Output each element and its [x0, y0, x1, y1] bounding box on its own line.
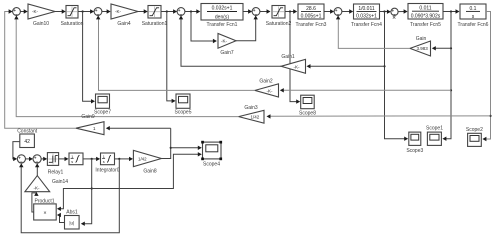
svg-text:Gain7: Gain7	[220, 50, 234, 56]
wire Integrator0 to Gain8, junction	[115, 157, 134, 161]
svg-text:Gain2: Gain2	[259, 79, 273, 85]
wire S3 to Transfer Fcn1, junction	[185, 9, 200, 13]
transfer fcn Transfer Fcn6	[458, 4, 489, 28]
wire junction down along bottom and up to sum SA	[19, 159, 119, 233]
sum S5	[334, 8, 342, 16]
wire Product1 output up to Gain14	[32, 192, 39, 212]
wire Gain2 output left and up to sum S2	[96, 15, 255, 90]
wire Gain8 output up to Gain9 with branch to Scope4 input 1	[161, 128, 171, 158]
wire Gain3 output left and up to sum S1	[14, 15, 238, 116]
svg-text:Gain3: Gain3	[244, 105, 258, 111]
relay Relay1	[47, 153, 63, 176]
svg-text:-K-: -K-	[115, 9, 122, 14]
wire feedback from Gain9 into sum S1	[5, 9, 76, 128]
wire S6 to Transfer Fcn5	[398, 9, 408, 13]
saturation Saturation	[61, 6, 84, 28]
gain Gain9 (mirrored, 1)	[76, 114, 104, 135]
svg-text:1/0.011: 1/0.011	[358, 6, 375, 12]
svg-text:0.011: 0.011	[419, 5, 431, 11]
svg-text:Scope3: Scope3	[406, 148, 423, 154]
svg-text:Constant: Constant	[17, 129, 38, 135]
gain Gain (3.983, mirrored)	[410, 36, 431, 56]
svg-text:Gain8: Gain8	[143, 168, 157, 174]
svg-text:Gain4: Gain4	[117, 21, 131, 27]
wire junction down to Gain7	[191, 12, 217, 44]
scope Scope7	[94, 94, 111, 116]
transfer fcn Transfer Fcn5	[408, 4, 443, 29]
svg-text:Transfer Fcn1: Transfer Fcn1	[207, 22, 238, 28]
svg-text:Gain: Gain	[416, 36, 427, 42]
svg-text:0.032s+1: 0.032s+1	[356, 14, 377, 20]
wire Transfer Fcn6 output down right edge to Scope2, junction	[482, 12, 491, 142]
svg-text:3.983: 3.983	[417, 46, 429, 51]
gain Gain7	[218, 34, 236, 57]
wire S5 to Transfer Fcn4	[342, 9, 353, 13]
svg-text:|u|: |u|	[69, 221, 74, 226]
saturation Saturation1	[142, 6, 168, 28]
svg-text:Scope2: Scope2	[466, 127, 483, 133]
transfer fcn Transfer Fcn4	[351, 4, 382, 28]
svg-text:-K-: -K-	[34, 186, 41, 191]
svg-text:Transfer Fcn3: Transfer Fcn3	[296, 22, 327, 28]
wire Saturation to sum S2, junction	[78, 9, 94, 13]
wire Saturation1 to sum S3, junction	[161, 9, 177, 13]
gain Gain3 (mirrored, 1/42)	[239, 105, 264, 123]
svg-text:1/42: 1/42	[251, 114, 260, 119]
svg-text:s: s	[71, 160, 73, 164]
wire junction down to Scope7	[83, 12, 95, 104]
svg-text:Gain14: Gain14	[52, 179, 68, 185]
scope Scope4 (selected, two inputs)	[201, 141, 222, 168]
gain Gain10	[28, 4, 55, 27]
wire Gain output left and up to sum S5	[336, 15, 410, 48]
wire long feedback to Gain3 input	[267, 114, 491, 118]
wire branch to Scope4 input 1	[171, 146, 202, 150]
svg-text:Gain10: Gain10	[33, 21, 49, 27]
svg-text:Saturation1: Saturation1	[142, 21, 168, 27]
svg-text:Scope7: Scope7	[94, 110, 111, 116]
svg-text:Scope1: Scope1	[426, 126, 443, 132]
gain Gain2 (mirrored)	[255, 79, 279, 97]
wire Transfer Fcn4 to sum S6, junction	[380, 10, 391, 14]
wire Gain14 output up to sum SB	[35, 163, 39, 175]
wire Gain10 to Saturation	[55, 9, 66, 13]
sum S6 with unconnected stub	[391, 8, 398, 18]
wire Gain7 up to sum S4	[236, 15, 258, 40]
sum SA	[17, 155, 25, 163]
saturation Saturation2	[266, 6, 292, 28]
transfer fcn Transfer Fcn1	[201, 4, 243, 29]
svg-text:s: s	[103, 160, 105, 164]
wire Transfer Fcn3 to sum S5	[324, 9, 334, 13]
scope Scope1 (mirrored input right)	[426, 126, 443, 146]
wire SB to Relay1	[41, 157, 47, 161]
svg-text:Scope5: Scope5	[175, 110, 192, 116]
scope Scope5	[175, 94, 192, 116]
integrator block A (limited 1/s)	[69, 153, 83, 165]
wire SA to SB	[26, 157, 34, 161]
wire TF5 junction down to Scope1 with branches	[442, 12, 452, 141]
sum S1	[13, 8, 21, 16]
svg-text:-K-: -K-	[32, 9, 39, 14]
svg-text:Transfer Fcn4: Transfer Fcn4	[351, 22, 382, 28]
constant Constant (42)	[17, 129, 38, 148]
svg-text:Product1: Product1	[34, 198, 54, 204]
sum S4	[252, 8, 260, 16]
svg-text:0.032s+1: 0.032s+1	[212, 6, 233, 12]
wire S1 to Gain10	[20, 9, 27, 13]
abs Abs1 (mirrored)	[65, 210, 80, 229]
sum S2	[94, 8, 102, 16]
wire Abs1 output to Product1 input 2	[57, 213, 65, 223]
gain Gain14 (points up)	[25, 176, 68, 192]
svg-text:-K-: -K-	[294, 64, 301, 69]
scope Scope8	[299, 95, 316, 117]
svg-text:Scope4: Scope4	[203, 161, 220, 167]
svg-text:1: 1	[103, 155, 105, 159]
wire Transfer Fcn5 to Transfer Fcn6, junction	[443, 9, 460, 13]
svg-text:Integrator0: Integrator0	[95, 167, 119, 173]
svg-text:Relay1: Relay1	[48, 170, 64, 176]
gain Gain8 (1/42)	[133, 150, 161, 174]
wire S2 to Gain4	[102, 9, 111, 13]
svg-text:Transfer Fcn6: Transfer Fcn6	[458, 22, 489, 28]
gain Gain4	[111, 4, 138, 27]
svg-text:Saturation: Saturation	[61, 21, 84, 27]
svg-text:1: 1	[71, 155, 73, 159]
svg-text:Abs1: Abs1	[66, 210, 78, 216]
wire Transfer Fcn1 to sum S4	[243, 9, 252, 13]
wire junction down to Scope8	[290, 12, 300, 104]
transfer fcn Transfer Fcn3	[296, 4, 327, 28]
wire Relay1 to IntegratorA	[59, 157, 69, 161]
svg-text:Gain1: Gain1	[281, 54, 295, 60]
svg-text:×: ×	[43, 211, 46, 217]
sum SB	[33, 155, 41, 163]
scope Scope2 (mirrored input right)	[466, 127, 483, 147]
svg-text:Gain9: Gain9	[81, 114, 95, 120]
wire branch to Gain1 input	[307, 64, 385, 68]
svg-text:0.005s+1: 0.005s+1	[301, 14, 322, 20]
gain Gain1 (mirrored)	[281, 54, 306, 73]
wire branch right up to Scope4 input 2	[92, 152, 202, 188]
wire junction down to Scope5	[167, 12, 176, 104]
wire Gain1 output up to sum S3	[179, 15, 281, 66]
scope Scope3	[406, 132, 423, 154]
wire IntegratorA to Integrator0, junction	[83, 157, 100, 161]
svg-text:1/42: 1/42	[138, 156, 147, 161]
wire branch left to Product1 input 1	[57, 189, 92, 212]
svg-text:0.090*3.902s: 0.090*3.902s	[411, 14, 441, 20]
svg-text:Saturation2: Saturation2	[266, 21, 292, 27]
svg-text:0.1: 0.1	[470, 6, 477, 12]
svg-text:-K-: -K-	[267, 88, 274, 93]
wire Saturation2 to Transfer Fcn3, junction	[285, 9, 297, 13]
wire branch to Gain (3.983) input	[432, 46, 451, 50]
integrator Integrator0	[95, 153, 119, 173]
svg-text:28.6: 28.6	[306, 6, 316, 12]
wire junction down to Abs1, junction at y188.5	[81, 159, 93, 226]
svg-text:-K-: -K-	[221, 39, 228, 44]
wire Gain4 to Saturation1	[138, 9, 148, 13]
wire branch to Gain2 input	[280, 88, 451, 92]
svg-text:42: 42	[24, 139, 30, 145]
svg-text:Transfer Fcn5: Transfer Fcn5	[410, 22, 441, 28]
sum S3	[177, 8, 185, 16]
wire S4 to Saturation2	[260, 9, 271, 13]
wire junction down to Scope3 with branch to Gain1	[383, 12, 408, 141]
product Product1 (mirrored)	[34, 198, 57, 220]
wire Gain9 input from junction above Gain8	[106, 126, 171, 130]
wire Constant to sum SA	[13, 142, 20, 161]
svg-text:den(s): den(s)	[215, 14, 230, 20]
